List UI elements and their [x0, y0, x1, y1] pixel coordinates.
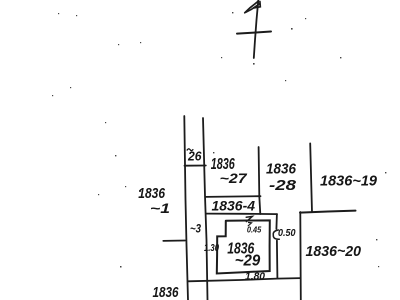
svg-text:~29: ~29: [235, 253, 261, 270]
svg-text:~3: ~3: [190, 222, 201, 236]
svg-text:1836-4: 1836-4: [212, 198, 256, 214]
svg-text:1836: 1836: [153, 285, 180, 300]
svg-text:1.80: 1.80: [245, 272, 265, 283]
svg-text:1836: 1836: [266, 161, 297, 178]
svg-text:0.50: 0.50: [278, 228, 296, 239]
svg-text:26: 26: [187, 149, 202, 164]
svg-text:-28: -28: [269, 177, 297, 194]
svg-text:1836~19: 1836~19: [320, 174, 377, 190]
svg-text:~27: ~27: [220, 170, 248, 186]
svg-text:~1: ~1: [150, 200, 170, 216]
svg-text:1836~20: 1836~20: [306, 243, 362, 260]
svg-text:0.45: 0.45: [247, 226, 262, 235]
svg-text:1.30: 1.30: [204, 243, 219, 254]
